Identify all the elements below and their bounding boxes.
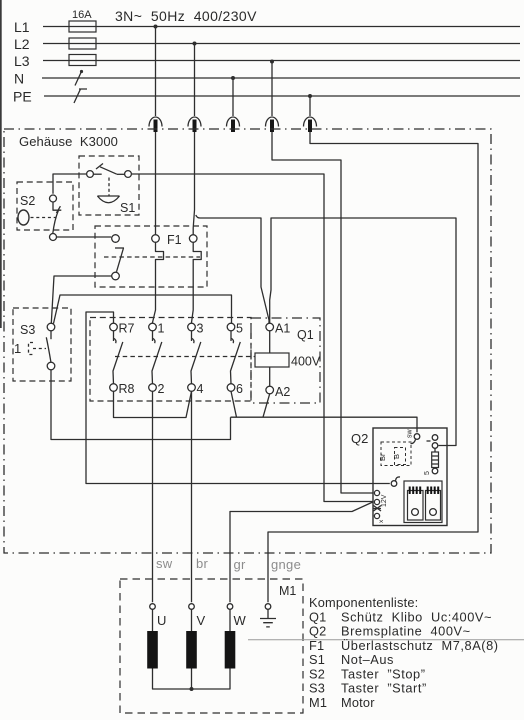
svg-text:sw: sw [156, 556, 173, 571]
svg-text:6: 6 [236, 382, 243, 396]
terminal PE gnge [265, 604, 271, 610]
F1 mechanical coupling dashed [104, 256, 200, 258]
switch S3 box [13, 308, 71, 381]
switch S1 box [79, 156, 139, 215]
svg-text:S2: S2 [309, 666, 325, 681]
F1 overload contact 2 [189, 235, 201, 287]
rail L1 [43, 26, 520, 28]
connector X5 PE [304, 117, 317, 132]
wire L3 drop to branch corner [272, 132, 373, 493]
Q2 component dashed box Br [378, 442, 411, 466]
svg-text:Not–Aus: Not–Aus [341, 652, 394, 667]
svg-text:Br: Br [378, 453, 387, 461]
svg-text:R8: R8 [119, 382, 135, 396]
contactor Q1 coil box [251, 318, 320, 403]
wire S1 right to Q2 (via x=324) [132, 174, 373, 502]
wire N drop [232, 78, 234, 116]
PE conductor mark [74, 89, 87, 103]
svg-text:A1: A1 [275, 322, 290, 336]
coil Q1 400V [255, 353, 289, 367]
Q2 relay block [404, 481, 442, 523]
svg-text:S1: S1 [309, 652, 325, 667]
ground symbol [260, 609, 276, 627]
scan artifact left edge [0, 0, 2, 328]
wire A1 to Q2 pair (via x=456) [270, 218, 456, 446]
svg-text:Q2: Q2 [351, 431, 368, 446]
svg-text:3N~ 50Hz 400/230V: 3N~ 50Hz 400/230V [115, 8, 257, 24]
wire star point [153, 669, 231, 690]
svg-text:gr: gr [234, 557, 247, 572]
pushbutton S2 Stop contact [50, 195, 62, 241]
wire motor W gr to Q2 [230, 502, 373, 602]
junction L3 drop [270, 60, 274, 64]
svg-text:Komponentenliste:: Komponentenliste: [309, 595, 418, 610]
svg-text:4: 4 [197, 382, 204, 396]
connector X3 N [227, 117, 240, 132]
fuse L1 [69, 21, 96, 32]
S2 actuator link [31, 217, 57, 219]
svg-text:Überlastschutz M7,8A(8): Überlastschutz M7,8A(8) [341, 638, 499, 653]
Q2 terminal pair right [427, 435, 438, 449]
svg-text:1: 1 [158, 322, 165, 336]
svg-text:A2: A2 [275, 385, 290, 399]
svg-text:S3: S3 [309, 681, 325, 696]
brake board Q2 [373, 428, 447, 526]
wire S3 top to contact 5 [54, 295, 232, 324]
contact 3-4 [188, 323, 201, 391]
enclosure Gehäuse K3000 box [4, 129, 491, 553]
wire Q2 pair to fuse [434, 448, 436, 468]
motor M1 box [120, 579, 303, 713]
wire S2 top to S1 left [53, 174, 86, 194]
wire F1 contact1 to main contact 1 [153, 287, 156, 323]
connector X1 L1 [149, 117, 162, 132]
svg-text:F1: F1 [167, 233, 182, 247]
terminal V [189, 604, 195, 610]
svg-text:Gehäuse K3000: Gehäuse K3000 [19, 134, 118, 149]
svg-text:M1: M1 [309, 695, 327, 710]
svg-text:S2: S2 [20, 194, 35, 208]
svg-text:M1: M1 [279, 584, 296, 598]
wire PE drop to Q2 side / motor gnge [268, 132, 478, 602]
contact 1-2 [149, 323, 162, 391]
wire S3 bottom to brake net [51, 370, 231, 440]
pushbutton S1 Not-Aus contact [87, 164, 132, 203]
rail L2 [43, 43, 520, 45]
junction L1 drop [154, 25, 158, 29]
svg-text:gnge: gnge [271, 557, 301, 572]
wire F1 aux bottom to S3 [51, 276, 111, 323]
svg-text:N: N [14, 71, 24, 87]
terminal U [150, 604, 156, 610]
Q2 fuse [424, 452, 439, 475]
junction star point [190, 687, 194, 691]
svg-text:B: B [392, 454, 401, 459]
svg-text:Taster ”Start”: Taster ”Start” [341, 681, 427, 696]
svg-text:Q1: Q1 [297, 328, 314, 342]
svg-text:16A: 16A [72, 9, 92, 21]
S2 actuator O symbol [18, 210, 29, 225]
svg-text:2: 2 [158, 382, 165, 396]
wire R7 to Q2 relay input [86, 312, 390, 484]
svg-text:5: 5 [236, 322, 243, 336]
wire L1 drop below connector to F1 [155, 132, 157, 235]
svg-text:L2: L2 [14, 36, 30, 52]
svg-text:R7: R7 [119, 322, 135, 336]
wire A1 to coil [269, 331, 271, 353]
junction PE drop [308, 94, 312, 98]
wire L2 drop below connector to F1 [193, 132, 194, 235]
wire R8 to contact 4 bottom [114, 391, 192, 417]
wire PE drop [309, 96, 311, 116]
wire L2 drop [194, 44, 196, 117]
Q2 terminal top (brake line in) [407, 429, 420, 444]
svg-text:br: br [196, 556, 209, 571]
F1 auxiliary contact [112, 235, 124, 280]
svg-text:3: 3 [197, 322, 204, 336]
Q2 relay drive terminal [391, 477, 400, 486]
motor winding V [191, 609, 193, 631]
svg-text:5: 5 [424, 471, 431, 475]
junction N drop [231, 76, 235, 80]
fuse L3 [69, 55, 96, 66]
contact 5-6 [227, 323, 240, 391]
svg-text:V: V [197, 613, 206, 628]
stray scan line [248, 639, 524, 641]
terminal W [227, 604, 233, 610]
svg-text:S1: S1 [120, 201, 135, 215]
rail N [42, 77, 520, 79]
fuse L2 [69, 38, 96, 49]
svg-text:Q1: Q1 [309, 609, 326, 624]
junction L2 drop [193, 42, 197, 46]
terminal A2 [266, 386, 274, 394]
wire coil to A2 [269, 367, 271, 386]
svg-text:U: U [157, 613, 166, 628]
svg-text:Motor: Motor [341, 695, 375, 710]
terminal A1 [266, 323, 274, 331]
svg-text:W: W [234, 613, 247, 628]
wire L3 drop [271, 62, 273, 117]
Q2 12V terminals [374, 490, 389, 523]
N conductor slash mark [75, 73, 81, 86]
Q1 mechanical coupling dashed [115, 356, 255, 358]
svg-text:400V: 400V [291, 355, 321, 369]
wire contact 2 to motor U [152, 391, 154, 602]
wire F1 contact2 to main contact 3 [192, 287, 194, 323]
wire contact 4 to motor V [191, 391, 193, 602]
wire contact 6 and A2 to brake line [231, 391, 418, 432]
svg-text:L3: L3 [14, 53, 30, 69]
contact R7-R8 [110, 323, 123, 391]
wire L2 branch to A1 [196, 215, 269, 323]
wire L1 drop [155, 27, 157, 117]
rail PE [44, 95, 520, 97]
svg-text:sw: sw [407, 429, 414, 439]
motor winding W [229, 609, 231, 631]
svg-text:Schütz Klibo Uc:400V~: Schütz Klibo Uc:400V~ [341, 609, 492, 624]
svg-text:Q2: Q2 [309, 624, 326, 639]
svg-text:F1: F1 [309, 638, 324, 653]
svg-text:PE: PE [13, 89, 32, 105]
svg-text:L1: L1 [14, 19, 30, 35]
rail L3 [43, 60, 520, 62]
overload relay F1 box [95, 226, 207, 287]
svg-text:12V: 12V [381, 494, 388, 507]
F1 overload contact 1 [152, 235, 164, 287]
switch S2 box [17, 182, 73, 230]
connector X4 L3 [266, 117, 279, 132]
pushbutton S3 Start contact [46, 323, 55, 370]
connector X2 L2 [188, 117, 201, 132]
svg-text:S3: S3 [20, 323, 35, 337]
motor winding U [152, 609, 154, 631]
svg-text:1: 1 [14, 341, 21, 356]
wire S2 bottom to F1 aux [57, 236, 111, 238]
contactor Q1 main contacts box [90, 318, 251, 402]
svg-text:Taster ”Stop”: Taster ”Stop” [341, 666, 426, 681]
svg-text:Bremsplatine 400V~: Bremsplatine 400V~ [341, 624, 471, 639]
S3 actuator bracket and link [29, 343, 47, 355]
